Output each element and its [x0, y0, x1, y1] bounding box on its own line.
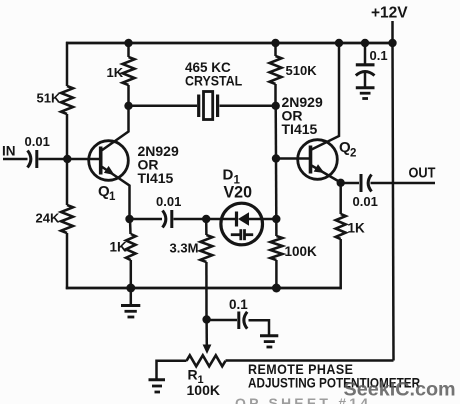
label 2N929 OR TI415 for Q2 [282, 94, 323, 137]
svg-text:V20: V20 [224, 183, 252, 201]
svg-text:51K: 51K [37, 91, 61, 106]
diode D1 V20 varactor [221, 167, 263, 245]
svg-text:100K: 100K [187, 382, 220, 398]
svg-text:1K: 1K [107, 65, 124, 80]
resistor 1K emitter Q2 [336, 183, 365, 289]
node Q2 base tee [272, 154, 280, 162]
svg-text:TI415: TI415 [282, 121, 318, 137]
wire wiper node to 0.1 cap [207, 319, 237, 322]
label 2N929 OR TI415 for Q1 [138, 143, 179, 186]
svg-text:0.1: 0.1 [229, 297, 248, 312]
svg-text:2: 2 [350, 148, 356, 160]
svg-text:3.3M: 3.3M [170, 241, 199, 256]
ground bypass cap [356, 88, 375, 99]
resistor 51K [37, 86, 74, 114]
transistor Q2 [298, 43, 357, 183]
node crystal / 510K / Q2 base rail [272, 102, 280, 110]
wire middle rail Q2 base node to D1 node [275, 159, 278, 220]
svg-text:TI415: TI415 [138, 170, 174, 186]
node bottom bus / 1K / ground [126, 284, 135, 293]
svg-text:CRYSTAL: CRYSTAL [185, 73, 242, 89]
wire right rail to potentiometer [226, 359, 394, 362]
resistor 1K emitter Q1 [110, 219, 136, 288]
resistor 3.3M [170, 219, 213, 320]
capacitor 0.01 output [353, 174, 378, 209]
wire bottom ground bus [66, 287, 342, 290]
svg-text:100K: 100K [285, 244, 318, 259]
resistor 1K collector Q1 [107, 43, 135, 106]
wire Q2 base [276, 157, 311, 160]
wire output lead [371, 182, 436, 185]
wire D1 right lead [263, 218, 277, 221]
svg-text:OUT: OUT [409, 165, 437, 181]
svg-text:1: 1 [109, 191, 116, 203]
wire Q2 emitter to out cap [341, 182, 359, 185]
capacitor 0.01 input [25, 134, 50, 168]
svg-text:0.01: 0.01 [156, 194, 181, 209]
svg-text:+12V: +12V [371, 5, 408, 22]
wire 0.01 cap to 3.3M/D1 node [174, 218, 222, 221]
capacitor 0.1 phase ground [229, 297, 269, 335]
node bottom bus / 100K [272, 284, 281, 293]
wire emitter junction to 0.01 cap [130, 218, 163, 221]
wire input cap to Q1 base [39, 158, 101, 161]
wire middle rail 510K node to Q2 base node [274, 106, 277, 159]
wire left rail middle segment [66, 114, 69, 205]
node top rail / +12V corner [388, 39, 396, 47]
wire left rail lower segment [66, 233, 69, 289]
node top rail / Q2 collector [335, 39, 343, 47]
node top rail / 510K [271, 39, 279, 47]
transistor Q1 [89, 106, 130, 220]
ground potentiometer [149, 380, 166, 392]
svg-text:0.01: 0.01 [353, 194, 378, 209]
node top rail / 0.1 bypass cap [361, 39, 369, 47]
svg-text:24K: 24K [36, 211, 60, 226]
crystal 465 KC [129, 60, 276, 120]
capacitor 0.1 bypass [356, 43, 388, 87]
potentiometer R1 100K [157, 355, 226, 398]
wire input lead [3, 158, 28, 161]
svg-text:R: R [188, 367, 198, 383]
node top rail / 1K [124, 39, 132, 47]
ground bottom bus [121, 288, 140, 317]
node D1 / 100K / rail [272, 215, 280, 223]
node 1K / crystal / Q1 collector [124, 102, 132, 110]
node input / 51K / 24K junction [63, 155, 71, 163]
resistor 510K [270, 43, 318, 106]
node Q2 emitter junction [337, 179, 345, 187]
node 3.3M / D1 left [202, 215, 210, 223]
node wiper / 3.3M / 0.1 cap [202, 315, 210, 323]
resistor 100K [270, 219, 317, 288]
svg-text:0.01: 0.01 [25, 134, 50, 149]
svg-text:510K: 510K [286, 63, 318, 78]
resistor 24K [36, 205, 74, 233]
wire top supply rail [66, 42, 393, 45]
+12V supply terminal [371, 5, 408, 44]
wire left rail upper segment [66, 42, 69, 86]
svg-text:IN: IN [2, 144, 16, 159]
wire right rail +12V down [393, 43, 394, 361]
svg-text:0.1: 0.1 [370, 48, 388, 63]
svg-text:1K: 1K [348, 221, 366, 236]
svg-text:1K: 1K [110, 240, 128, 255]
svg-text:OP SHEET #14: OP SHEET #14 [235, 395, 371, 404]
svg-text:D: D [223, 167, 234, 184]
note REMOTE PHASE ADJUSTING POTENTIOMETER [248, 362, 420, 391]
node Q1 emitter / 1K / 0.01 junction [125, 215, 133, 223]
ground 0.1 phase cap [260, 336, 278, 347]
wiper arm arrow [203, 320, 212, 355]
capacitor 0.01 phase [156, 194, 181, 228]
